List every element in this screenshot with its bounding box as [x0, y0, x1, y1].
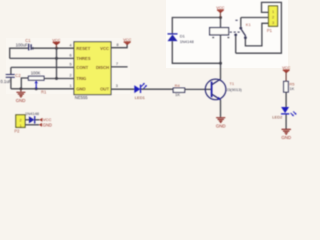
relay left contact: [234, 34, 237, 37]
svg-text:1: 1: [69, 84, 71, 88]
svg-text:C2: C2: [15, 73, 21, 78]
relay K1 coil: [210, 28, 229, 35]
wire right contact to P1 pin3: [245, 23, 268, 46]
svg-text:2: 2: [272, 14, 274, 19]
node junction D1/coil/collector: [219, 62, 222, 65]
svg-text:1N4148: 1N4148: [25, 111, 40, 116]
relay right contact: [244, 36, 247, 39]
svg-text:100K: 100K: [31, 70, 41, 75]
op-amp U1 NE555 timer body: [74, 42, 111, 100]
svg-text:1N4148: 1N4148: [180, 39, 195, 44]
svg-text:2: 2: [69, 74, 71, 78]
wire P2 pin2 to D2: [25, 119, 29, 121]
relay armature: [241, 29, 245, 36]
wire pin8 to VCC: [111, 43, 127, 47]
wire GND row (pin1): [11, 88, 74, 90]
transistor Q1 T1 9013: [205, 79, 242, 100]
power VCC symbol (LED2 chain): [282, 65, 290, 81]
svg-text:3: 3: [116, 84, 118, 88]
svg-text:100uF: 100uF: [16, 43, 29, 48]
svg-text:R4: R4: [175, 83, 181, 88]
connector P2: [14, 115, 25, 134]
svg-text:GND: GND: [16, 98, 26, 103]
capacitor C2: [0, 73, 21, 84]
node junction TRIG: [55, 77, 58, 80]
relay K1 actuation dashed link: [230, 31, 240, 33]
svg-text:1: 1: [272, 9, 274, 14]
svg-text:1K: 1K: [175, 92, 180, 97]
wire common pole stem: [240, 18, 242, 27]
wire C2 top stub: [10, 67, 12, 74]
svg-text:THRES: THRES: [76, 56, 90, 61]
wire D1 anode to collector junction: [172, 41, 220, 63]
wire R4 to base: [185, 88, 212, 90]
svg-text:K1: K1: [246, 22, 252, 27]
wire emitter down to ground: [220, 100, 222, 117]
wire vertical VCC bus x56: [56, 48, 58, 78]
relay contact tick: [235, 19, 237, 21]
svg-text:3: 3: [272, 20, 274, 25]
node junction THRES: [55, 57, 58, 60]
svg-text:VCC: VCC: [216, 5, 224, 10]
svg-text:LED2: LED2: [272, 114, 283, 119]
wire coil top: [220, 18, 222, 28]
power VCC symbol (relay): [216, 5, 224, 18]
svg-text:TRIG: TRIG: [76, 76, 86, 81]
svg-text:VCC: VCC: [282, 65, 290, 70]
wire pin7 DISCH stub: [111, 66, 128, 68]
wire LED1 to R4: [141, 88, 173, 90]
svg-text:4: 4: [69, 43, 71, 47]
svg-text:7: 7: [116, 62, 118, 66]
svg-text:R1: R1: [41, 90, 47, 95]
svg-text:GND: GND: [281, 135, 291, 140]
svg-text:6: 6: [69, 54, 71, 58]
node junction VCC/RESET: [55, 47, 58, 50]
svg-text:NE555: NE555: [75, 95, 88, 100]
node junction GND row / C2: [19, 87, 22, 90]
wire OUT pin3 to LED1: [111, 88, 134, 90]
capacitor C1: [16, 38, 35, 50]
wire common to P1 pin2: [241, 17, 269, 19]
wire THRES row: [10, 57, 74, 59]
ground GND symbol (left): [16, 89, 26, 103]
svg-text:P1: P1: [267, 28, 273, 33]
ground GND symbol (emitter): [216, 118, 226, 129]
svg-text:DISCH: DISCH: [96, 65, 109, 70]
LED LED1: [134, 83, 147, 100]
svg-text:5: 5: [69, 63, 71, 67]
resistor R5 1K: [284, 81, 296, 92]
connector P1: [267, 6, 278, 33]
svg-text:T1: T1: [229, 81, 234, 86]
diode D1 1N4148: [168, 34, 195, 44]
svg-text:1: 1: [20, 123, 22, 128]
ground GND symbol (LED2): [281, 129, 291, 140]
ground GND port (P2): [39, 122, 52, 127]
power VCC symbol (left): [52, 37, 60, 48]
LED LED2: [272, 107, 296, 119]
wire TRIG row (pot to pin2): [44, 78, 74, 80]
wire collector up to relay junction: [220, 63, 222, 79]
wire P1 pin1 wrap loop to left contact: [236, 2, 282, 53]
svg-text:OUT: OUT: [100, 86, 109, 91]
node junction VCC/coil: [219, 16, 222, 19]
power VCC port (P2): [39, 117, 51, 122]
wire C1 to RESET pin4: [31, 47, 74, 49]
wire RESET-row left loop to THRES row: [10, 48, 29, 58]
svg-text:VCC: VCC: [52, 37, 60, 42]
relay common contact: [239, 27, 242, 30]
svg-text:CONT: CONT: [76, 65, 88, 70]
svg-text:GND: GND: [43, 122, 52, 127]
svg-text:RESET: RESET: [76, 46, 90, 51]
svg-text:VCC: VCC: [123, 37, 131, 42]
svg-text:J3(9013): J3(9013): [226, 87, 242, 92]
wire coil bottom to junction: [220, 35, 222, 63]
wire D2 to VCC port: [35, 119, 39, 121]
wire top rail to VCC junction: [172, 18, 220, 35]
svg-text:VCC: VCC: [100, 46, 109, 51]
svg-text:LED1: LED1: [135, 95, 146, 100]
potentiometer R1 100K: [28, 70, 47, 94]
svg-text:1K: 1K: [289, 86, 294, 91]
svg-text:GND: GND: [76, 86, 85, 91]
wire pot left leg down to GND row: [21, 78, 28, 89]
svg-text:0.1uF: 0.1uF: [0, 79, 11, 84]
wire P2 pin1 to GND port: [25, 124, 39, 126]
diode D2 1N4148: [25, 111, 40, 123]
power VCC symbol (pin8): [123, 37, 131, 45]
relay coil pin marks: [212, 37, 214, 38]
wire left contact stub: [235, 36, 237, 53]
wire C2 bottom stub: [10, 78, 12, 89]
svg-text:P2: P2: [14, 129, 20, 134]
wire R5 to LED2: [285, 92, 287, 107]
node junction GND row / wiper: [35, 87, 38, 90]
resistor R4 1K: [173, 83, 185, 97]
svg-text:2: 2: [20, 117, 22, 122]
svg-text:8: 8: [117, 43, 119, 47]
svg-text:GND: GND: [216, 123, 226, 128]
wire CONT row: [11, 66, 74, 68]
wire LED2 to ground: [285, 115, 287, 130]
